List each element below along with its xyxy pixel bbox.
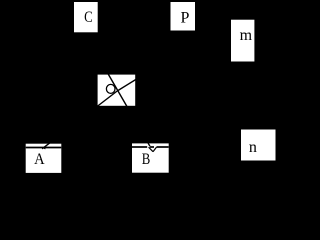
svg-text:C: C bbox=[84, 9, 93, 27]
string knot to right edge bbox=[117, 80, 136, 92]
block box A bbox=[26, 144, 62, 173]
label box P bbox=[171, 2, 196, 31]
junction box O bbox=[98, 75, 136, 106]
surface line on B right segment bbox=[157, 146, 169, 148]
block box B bbox=[132, 143, 169, 172]
surface line on B left segment bbox=[132, 146, 147, 148]
arrow V left arm at B bbox=[149, 147, 153, 152]
surface line on B middle segment bbox=[150, 146, 154, 148]
arrow V right arm at B bbox=[153, 147, 157, 152]
label box m bbox=[231, 20, 254, 62]
string C to B bbox=[85, 33, 150, 146]
svg-text:m: m bbox=[240, 27, 253, 44]
string A to knot bbox=[42, 91, 117, 149]
label box C bbox=[74, 2, 98, 32]
arrow barb at A bbox=[44, 147, 46, 150]
surface line on A bbox=[26, 147, 62, 149]
ring O bbox=[106, 84, 115, 93]
label box n bbox=[241, 130, 276, 161]
svg-text:n: n bbox=[249, 139, 257, 156]
svg-text:B: B bbox=[142, 151, 151, 169]
svg-text:P: P bbox=[180, 9, 189, 26]
svg-text:A: A bbox=[34, 150, 45, 168]
